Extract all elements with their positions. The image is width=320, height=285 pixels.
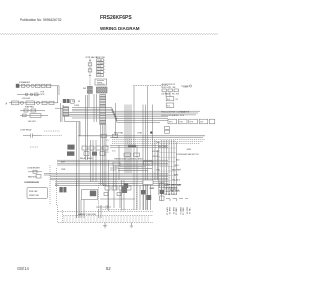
svg-text:1: 1 bbox=[104, 60, 105, 62]
svg-text:GRN: GRN bbox=[187, 149, 192, 151]
ice maker circuit row bbox=[16, 84, 59, 95]
vertical group x125-131 bbox=[125, 105, 131, 174]
center lines y160-165 bbox=[57, 160, 168, 165]
junction cluster overload bbox=[71, 100, 75, 104]
left row 5 heater bbox=[31, 109, 36, 112]
vertical drops center bbox=[77, 180, 80, 218]
svg-text:P3: P3 bbox=[107, 152, 109, 154]
freezer light lamp bbox=[36, 101, 39, 104]
defrost inner row2 bbox=[104, 193, 121, 196]
center relay blob 1 bbox=[67, 145, 74, 150]
door switch 2 bbox=[87, 90, 92, 93]
extra service lines bbox=[110, 146, 168, 148]
left mid comp bbox=[33, 170, 37, 173]
comp x113-120 bbox=[113, 162, 120, 166]
neutral long wire bbox=[78, 135, 205, 137]
perforation wavy line bbox=[0, 33, 220, 36]
svg-text:HTR: HTR bbox=[179, 122, 183, 124]
door switch 1 bbox=[87, 86, 92, 89]
left mid small box bbox=[36, 175, 41, 178]
vertical single x115 bbox=[115, 103, 117, 136]
cluster tail circle bbox=[189, 85, 191, 87]
center relay blob 2 bbox=[67, 151, 74, 155]
icemaker mold heater bbox=[26, 84, 29, 87]
run capacitor dashed tail bbox=[41, 135, 62, 137]
junction down wire bbox=[65, 116, 81, 136]
defrost heater box bbox=[30, 114, 41, 118]
comp small x113 bbox=[113, 134, 118, 137]
svg-text:ICEMAKER: ICEMAKER bbox=[19, 81, 30, 84]
right top cluster row3 comps bbox=[162, 89, 178, 92]
defrost inner divider bbox=[100, 198, 135, 200]
right of box comp 2 bbox=[146, 195, 151, 200]
freezer light box bbox=[26, 101, 35, 105]
white box upper right bbox=[143, 180, 153, 184]
bottom dashed line 1 bbox=[58, 210, 153, 212]
run tick rows bbox=[159, 148, 177, 189]
icemaker holding switch box bbox=[35, 84, 40, 87]
svg-text:GRN: GRN bbox=[156, 170, 161, 172]
line long wire bbox=[110, 136, 203, 138]
center comp x124 bbox=[124, 153, 131, 156]
left row 6 comp bbox=[23, 114, 27, 117]
lower lines band bbox=[55, 182, 168, 186]
left mid wire mark bbox=[28, 171, 42, 173]
adaptive control box bbox=[82, 190, 98, 200]
vertical group mid continuation bbox=[101, 125, 106, 185]
icemaker thermostat bbox=[22, 84, 25, 87]
start device blob 2 bbox=[63, 187, 66, 192]
left row 5 defrost thermostat bbox=[24, 109, 28, 112]
svg-text:CUBE: CUBE bbox=[183, 86, 189, 88]
svg-text:START REL: START REL bbox=[29, 194, 39, 197]
center comp row 1 bbox=[82, 146, 108, 150]
water valve solenoid 2 bbox=[88, 69, 92, 72]
left dashed vertical 1 bbox=[49, 165, 51, 205]
svg-text:RED WHT: RED WHT bbox=[172, 170, 182, 172]
right vertical comp b bbox=[165, 130, 170, 133]
svg-text:4: 4 bbox=[104, 69, 105, 71]
svg-text:BLU 16: BLU 16 bbox=[185, 208, 187, 216]
svg-text:P12: P12 bbox=[72, 101, 75, 103]
left row 1 lamp 2 bbox=[30, 93, 33, 96]
freezer fan motor box bbox=[12, 101, 19, 105]
run capacitor symbol bbox=[23, 133, 41, 137]
icemaker plug bbox=[16, 84, 20, 88]
left legend box bbox=[27, 187, 47, 198]
center box x143 bbox=[144, 161, 153, 165]
svg-text:THERMOSTAT · CONTROL · BRKT: THERMOSTAT · CONTROL · BRKT bbox=[114, 157, 144, 160]
right boxed row bbox=[168, 119, 215, 124]
svg-text:COMP MTR START: COMP MTR START bbox=[165, 183, 183, 186]
main wire bus upper bbox=[69, 108, 200, 123]
svg-text:CMP: CMP bbox=[150, 188, 155, 190]
vertical group x143-148 bbox=[143, 105, 146, 211]
svg-text:RELAY TIMER: RELAY TIMER bbox=[80, 157, 93, 160]
junction connector stack bbox=[63, 107, 69, 116]
icemaker water fill switch bbox=[46, 84, 50, 87]
defrost big dashed box bbox=[99, 184, 137, 210]
extra center verticals bbox=[119, 136, 158, 211]
vertical pair left bbox=[86, 95, 88, 160]
svg-text:15W 40W: 15W 40W bbox=[22, 98, 30, 100]
extra verticals left of cluster bbox=[122, 180, 125, 211]
svg-text:LT SW: LT SW bbox=[97, 69, 102, 71]
wire water valve column bbox=[89, 59, 91, 95]
junction dot bbox=[150, 131, 152, 133]
svg-text:BRN: BRN bbox=[174, 174, 179, 176]
left rows junction vertical bbox=[57, 86, 59, 103]
svg-text:FILL SW: FILL SW bbox=[172, 94, 179, 96]
svg-text:RUN CAP: RUN CAP bbox=[29, 190, 38, 193]
svg-text:P8: P8 bbox=[78, 101, 80, 103]
svg-text:ORG BLU: ORG BLU bbox=[152, 156, 160, 158]
vertical center drops bbox=[77, 122, 117, 218]
right small box 1 bbox=[166, 97, 174, 101]
vertical drops center3 bbox=[99, 210, 102, 219]
center comp x133 bbox=[134, 153, 140, 156]
right vert comp a bbox=[159, 183, 164, 188]
svg-text:COMP RELAY: COMP RELAY bbox=[20, 128, 32, 131]
svg-text:DR: DR bbox=[176, 99, 179, 101]
water valve solenoid 1 bbox=[88, 63, 92, 66]
junction cluster relay a bbox=[63, 99, 66, 103]
junction cluster relay b bbox=[67, 99, 70, 103]
bracket drop 1 bbox=[133, 86, 135, 210]
left row 1 wire bbox=[17, 93, 40, 95]
vertical drops center2 bbox=[81, 200, 84, 219]
bottom dashed line 2 bbox=[63, 215, 153, 217]
right vertical comp bbox=[165, 126, 170, 129]
icemaker wire bbox=[19, 85, 52, 87]
right of box comp 1 bbox=[141, 190, 146, 194]
svg-text:CONDENSER FAN MOTOR: CONDENSER FAN MOTOR bbox=[176, 153, 199, 156]
svg-text:HTR: HTR bbox=[190, 122, 194, 124]
dispenser control hatched module bbox=[96, 87, 107, 93]
strip pin smudges bbox=[101, 97, 104, 124]
svg-text:FRZ DOOR HEATER · WTR: FRZ DOOR HEATER · WTR bbox=[162, 114, 185, 117]
short lines left of run bbox=[110, 168, 118, 170]
bottom comb ticks bbox=[64, 216, 148, 222]
icemaker motor bbox=[31, 84, 34, 87]
line tick row bbox=[118, 169, 152, 171]
svg-text:BLK: BLK bbox=[176, 160, 180, 162]
dark segment on line bbox=[128, 145, 136, 148]
left row 6 wire bbox=[20, 114, 48, 116]
bracket drop 2 bbox=[147, 86, 149, 210]
freezer fan motor bbox=[20, 101, 23, 104]
dispenser module box bbox=[95, 79, 107, 85]
svg-text:A: A bbox=[6, 103, 8, 106]
defrost inner lines bbox=[108, 190, 120, 208]
right small box 2 bbox=[166, 103, 174, 107]
svg-text:LINE: LINE bbox=[138, 133, 143, 135]
right vertical run bbox=[159, 140, 177, 195]
left pair drop bbox=[61, 103, 63, 122]
svg-text:OVERLOAD PROT: OVERLOAD PROT bbox=[165, 190, 181, 193]
junction left wire bbox=[55, 107, 63, 109]
svg-text:4 5 6: 4 5 6 bbox=[112, 150, 116, 152]
left row 1 comp bbox=[35, 93, 38, 96]
strip feed wires bbox=[89, 94, 97, 122]
center verticals add bbox=[91, 140, 97, 182]
right vert comp b bbox=[160, 190, 164, 194]
svg-text:SW: SW bbox=[83, 88, 86, 90]
svg-text:COM: COM bbox=[97, 75, 102, 77]
left row 8 dashed wire bbox=[44, 130, 60, 132]
adaptive control blob bbox=[90, 191, 96, 197]
svg-text:RUN WINDING: RUN WINDING bbox=[165, 188, 179, 190]
svg-text:MTR: MTR bbox=[41, 94, 46, 96]
second bus lines bbox=[44, 173, 168, 179]
bottom enclosure vertical left 2 bbox=[62, 210, 64, 223]
dispenser switch stack bbox=[97, 59, 106, 77]
left row 1 lamp 1 bbox=[25, 93, 28, 96]
left row 5 wire bbox=[20, 109, 45, 111]
left dashed vertical 2 bbox=[56, 168, 58, 205]
icemaker feed wire corner bbox=[52, 86, 59, 95]
mid dark segments bbox=[120, 165, 150, 167]
right bracket marks bbox=[166, 199, 188, 202]
svg-text:P2: P2 bbox=[107, 146, 109, 148]
svg-text:YEL BLU: YEL BLU bbox=[172, 179, 181, 181]
svg-text:BLK WHT: BLK WHT bbox=[152, 151, 160, 153]
svg-text:5: 5 bbox=[104, 72, 105, 74]
svg-text:EVAP FAN: EVAP FAN bbox=[25, 106, 34, 109]
svg-text:TMR: TMR bbox=[156, 142, 160, 144]
svg-text:RED 16: RED 16 bbox=[179, 208, 181, 216]
svg-text:3: 3 bbox=[104, 66, 105, 68]
top bracket wire bbox=[133, 85, 168, 87]
svg-text:FRS26KF6PS: FRS26KF6PS bbox=[100, 15, 132, 21]
start device blob 1 bbox=[59, 187, 62, 192]
dashed service rows bbox=[112, 139, 205, 143]
svg-text:CRUSH: CRUSH bbox=[97, 63, 104, 65]
left row 3 wire bbox=[9, 102, 58, 104]
right of box verticals bbox=[140, 185, 151, 210]
svg-text:HTR: HTR bbox=[169, 122, 173, 124]
svg-text:P1: P1 bbox=[107, 140, 109, 142]
center comp row 2 bbox=[84, 152, 105, 156]
svg-text:SOL: SOL bbox=[167, 99, 170, 101]
svg-text:WHT 14: WHT 14 bbox=[166, 208, 168, 216]
cluster tail wire bbox=[181, 85, 189, 87]
svg-text:WIRING DIAGRAM: WIRING DIAGRAM bbox=[100, 26, 140, 31]
main harness connector strip bbox=[100, 95, 106, 125]
svg-text:ADC: ADC bbox=[103, 184, 107, 187]
defrost box comp row bbox=[105, 186, 131, 190]
svg-text:SOL: SOL bbox=[167, 105, 170, 107]
defrost dark cluster bbox=[122, 186, 128, 193]
left row 3 switch bbox=[42, 101, 47, 104]
bottom comp row connector bbox=[96, 205, 111, 208]
right vert comp c bbox=[159, 196, 164, 200]
svg-text:BLK 16: BLK 16 bbox=[172, 208, 174, 215]
svg-text:52: 52 bbox=[106, 266, 111, 271]
dark comp x124 bbox=[124, 183, 129, 188]
water valve ticks bbox=[89, 60, 91, 75]
svg-text:DEF HTR: DEF HTR bbox=[28, 121, 36, 123]
right vertical comp line bbox=[161, 182, 163, 201]
cluster connectors bbox=[166, 92, 170, 97]
svg-text:Publication No. 5995426732: Publication No. 5995426732 bbox=[20, 18, 62, 22]
ground symbol bbox=[103, 223, 133, 229]
svg-text:GB/14: GB/14 bbox=[17, 266, 30, 271]
bottom enclosure vertical left 1 bbox=[57, 205, 59, 223]
svg-text:ORG: ORG bbox=[174, 165, 179, 167]
vertical single x152 bbox=[152, 105, 154, 136]
svg-text:115 VAC 60 HZ: 115 VAC 60 HZ bbox=[165, 193, 178, 196]
svg-text:COMPRESSOR: COMPRESSOR bbox=[24, 182, 40, 184]
svg-text:CONDENSER: CONDENSER bbox=[27, 168, 40, 170]
svg-text:FRZ DOOR HTR · LOW AMB HTR: FRZ DOOR HTR · LOW AMB HTR bbox=[162, 111, 190, 114]
ptc mark bbox=[30, 146, 38, 148]
comp small x101 bbox=[101, 134, 106, 137]
svg-text:SW: SW bbox=[200, 122, 203, 124]
svg-text:AUGER MOTOR: AUGER MOTOR bbox=[162, 83, 176, 86]
bottom dashed line 3 bbox=[58, 222, 153, 224]
svg-text:CONN: CONN bbox=[74, 105, 80, 107]
left row 3 switch 2 bbox=[49, 101, 54, 104]
icemaker shutoff arm bbox=[42, 84, 45, 87]
svg-text:TMR: TMR bbox=[61, 169, 66, 171]
svg-text:2: 2 bbox=[104, 63, 105, 65]
